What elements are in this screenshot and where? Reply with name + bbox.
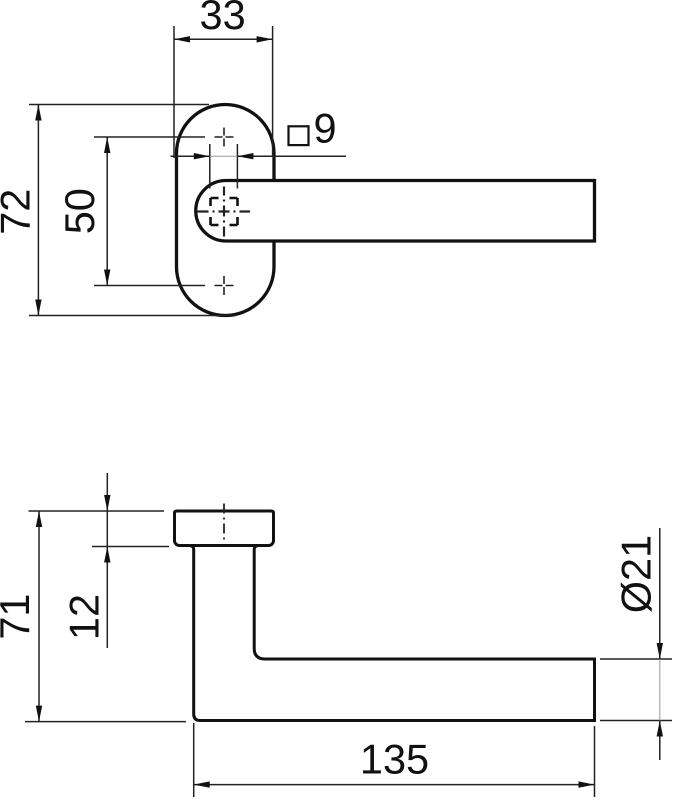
arrow square9 left — [194, 153, 210, 159]
extension line 72 top — [29, 104, 209, 106]
arrow 50 top — [104, 137, 110, 153]
extension line 135 right — [594, 726, 596, 797]
dimension line square9 left tail — [171, 155, 210, 157]
extension line 50 top — [94, 136, 205, 138]
oval rosette outline — [177, 105, 275, 316]
svg-text:33: 33 — [200, 0, 246, 38]
arrow 71 bottom — [36, 706, 42, 722]
boss centerline horizontal — [198, 210, 251, 212]
dimension line square9 right tail — [237, 155, 346, 157]
rosette side profile — [175, 511, 274, 546]
dimension line 33 — [174, 38, 273, 40]
arrow 33 right — [257, 36, 273, 42]
svg-text:12: 12 — [61, 594, 108, 640]
extension line 33 right — [272, 26, 274, 157]
spindle square 9mm dashed — [211, 198, 238, 225]
extension line 71 bottom — [25, 721, 186, 723]
dimension line dia21 hairline — [659, 659, 661, 721]
dimension line 50 — [106, 137, 108, 286]
extension line 33 left — [173, 26, 175, 158]
lever bar (front view, white over rosette) — [196, 181, 595, 242]
dimension line dia21 lower tail — [659, 721, 661, 761]
dimension line 71 — [38, 511, 40, 722]
arrow 33 left — [174, 36, 190, 42]
svg-text:50: 50 — [56, 188, 103, 234]
svg-text:71: 71 — [0, 594, 38, 640]
handle profile (neck + grip bar) — [191, 546, 595, 721]
extension line 72 bottom — [29, 315, 236, 317]
arrow 12 bottom — [104, 547, 110, 563]
svg-text:135: 135 — [360, 736, 429, 783]
arrow dia21 top — [657, 643, 663, 659]
extension line 12 bottom — [92, 546, 169, 548]
screw hole cross bottom — [215, 276, 234, 295]
extension line 50 bottom — [94, 285, 205, 287]
arrow 72 bottom — [35, 300, 41, 316]
extension line square9 left — [209, 144, 211, 189]
extension line 71/12 top shared — [29, 510, 165, 512]
arrow dia21 bottom — [657, 721, 663, 737]
dimension line 72 — [37, 105, 39, 316]
dimension line 12 — [106, 473, 108, 648]
svg-text:9: 9 — [314, 105, 337, 152]
arrow square9 right — [237, 153, 253, 159]
svg-text:Ø21: Ø21 — [613, 535, 660, 613]
extension line square9 right — [236, 144, 238, 189]
label square symbol — [289, 126, 309, 145]
arrow 135 right — [579, 781, 595, 787]
extension line 135 left — [193, 723, 195, 797]
rosette dashed centerline — [223, 504, 225, 542]
arrow 72 top — [35, 105, 41, 121]
dimension line dia21 upper tail — [659, 528, 661, 659]
arrow 71 top — [36, 511, 42, 527]
arrow 12 top — [104, 495, 110, 511]
dimension line square9 hairline — [210, 155, 238, 157]
extension line dia21 top — [600, 658, 672, 660]
screw hole cross top — [215, 128, 234, 147]
boss centerline vertical — [223, 187, 225, 237]
dimension line 135 — [194, 784, 595, 786]
svg-text:72: 72 — [0, 189, 38, 235]
extension line dia21 bottom — [600, 720, 672, 722]
arrow 135 left — [194, 781, 210, 787]
arrow 50 bottom — [104, 270, 110, 286]
